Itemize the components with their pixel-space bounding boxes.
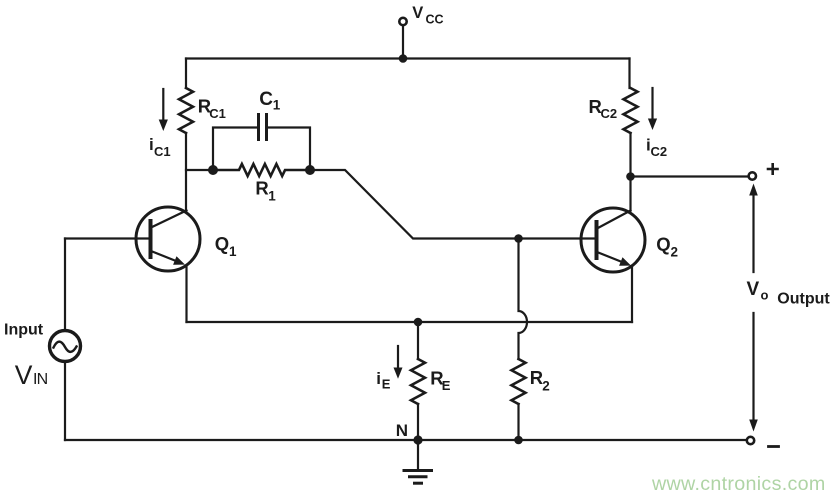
svg-text:R: R: [530, 367, 543, 388]
wire to R1-C1 pair: [186, 169, 213, 171]
current arrow iE: [394, 346, 403, 379]
svg-text:Q: Q: [215, 233, 229, 254]
label C1: [259, 89, 281, 113]
node R1 right: [305, 165, 315, 175]
resistor R1: [213, 164, 310, 176]
wire Q2 emitter down: [631, 267, 633, 323]
svg-text:1: 1: [273, 98, 281, 113]
svg-text:V: V: [15, 360, 33, 390]
svg-text:C: C: [259, 89, 273, 110]
resistor RC2: [624, 88, 638, 133]
resistor R2: [512, 359, 526, 404]
svg-text:CC: CC: [426, 13, 444, 27]
label plus: [768, 164, 778, 173]
label RC1: [198, 96, 226, 121]
svg-text:o: o: [761, 288, 769, 303]
resistor RE: [411, 359, 425, 404]
svg-text:C1: C1: [154, 144, 171, 159]
wire collector to output +: [631, 175, 749, 177]
transistor Q2: [581, 208, 645, 272]
label Q2: [656, 234, 678, 260]
capacitor C1 loop: [213, 128, 310, 171]
capacitor C1 plates: [259, 115, 267, 140]
label VIN: [15, 360, 48, 390]
node R1 left: [208, 165, 218, 175]
svg-text:Input: Input: [4, 321, 44, 338]
label RC2: [589, 96, 618, 121]
node R2 bottom: [514, 436, 523, 445]
wire bottom rail: [65, 439, 747, 441]
node N junction: [413, 435, 422, 444]
wire top rail: [186, 57, 630, 59]
resistor RE branch wire: [417, 322, 419, 440]
input source Vin: [50, 239, 81, 441]
svg-text:N: N: [396, 421, 408, 440]
label R1: [255, 177, 276, 203]
wire R1 to Q2 base: [310, 170, 595, 239]
output + terminal: [749, 172, 756, 179]
svg-text:R: R: [255, 177, 268, 198]
svg-text:1: 1: [229, 244, 237, 259]
Vo dimension arrow: [749, 184, 758, 432]
label iC2: [646, 135, 667, 159]
label iC1: [149, 135, 171, 159]
wire Q1 emitter down: [185, 266, 187, 322]
resistor R2 branch wire with hop over emitter rail: [519, 239, 528, 441]
svg-text:Output: Output: [777, 290, 830, 307]
svg-text:C1: C1: [209, 106, 226, 121]
svg-text:1: 1: [268, 189, 276, 204]
label Q1: [215, 233, 237, 259]
svg-text:Q: Q: [656, 234, 670, 255]
wire emitter rail: [187, 321, 633, 323]
wire Q2 collector / RC2 branch: [630, 59, 631, 211]
svg-text:E: E: [442, 378, 451, 393]
wire Vcc rail to RC1: [185, 59, 187, 89]
Vcc terminal: [399, 18, 408, 63]
node Q2 base / R2 junction: [514, 234, 523, 243]
svg-text:i: i: [376, 369, 381, 388]
output - terminal: [747, 437, 754, 444]
svg-text:C2: C2: [651, 144, 668, 159]
svg-text:www.cntronics.com: www.cntronics.com: [651, 473, 826, 495]
svg-text:V: V: [412, 4, 423, 22]
label minus: [769, 445, 779, 448]
resistor RC1: [179, 88, 193, 133]
svg-text:IN: IN: [33, 371, 48, 388]
current arrow iC2: [648, 88, 657, 130]
svg-text:2: 2: [671, 244, 679, 259]
label R2: [530, 367, 550, 394]
current arrow iC1: [159, 89, 168, 131]
label Vcc: [412, 4, 443, 27]
ground: [404, 440, 432, 483]
label Vo: [747, 279, 769, 303]
node Q2 collector: [626, 172, 635, 181]
node emitter rail / RE: [414, 318, 423, 327]
label RE: [430, 367, 451, 393]
svg-text:2: 2: [542, 379, 550, 394]
label iE: [376, 369, 391, 392]
wire input to Q1 base: [65, 237, 149, 239]
wire RC1 to Q1 collector: [185, 133, 187, 211]
svg-text:E: E: [382, 377, 391, 392]
svg-text:V: V: [747, 279, 760, 300]
svg-text:C2: C2: [601, 106, 618, 121]
transistor Q1: [136, 207, 200, 271]
